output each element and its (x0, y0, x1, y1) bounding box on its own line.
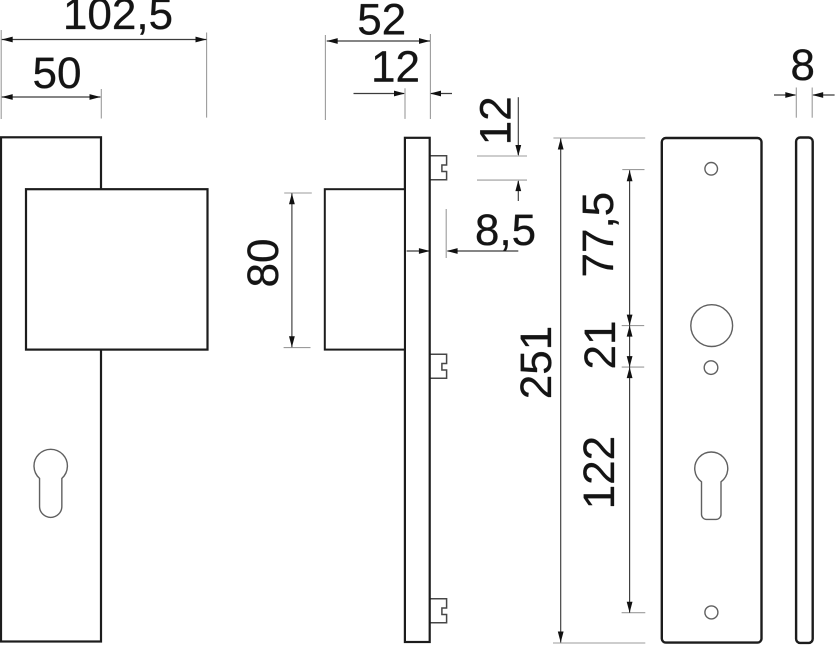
plate side view bar (405, 138, 430, 642)
dimension 50 (2, 57, 102, 118)
dimension 12 (vertical, clip height) (477, 97, 527, 201)
extension lines (0, 30, 2, 119)
dimension chain 77,5 / 21 / 122 (583, 170, 646, 613)
dimension 80 (vertical, knob height) (247, 193, 312, 348)
small hole below hub (704, 361, 718, 375)
clip bottom (430, 599, 447, 623)
clip top (430, 156, 447, 180)
top screw hole (705, 163, 718, 176)
knob block side view (325, 189, 405, 349)
dimension 52 (325, 4, 430, 120)
dimension 251 (520, 138, 645, 643)
backplate side view strip (796, 138, 813, 643)
keyhole euro profile (backplate) (695, 452, 728, 519)
plate front view (1, 137, 101, 641)
dimension line (2, 39, 207, 41)
dimension 12 (horizontal, plate thickness) (354, 51, 453, 119)
122 arrows (627, 367, 633, 378)
handle hub hole (691, 305, 733, 347)
keyhole euro profile (left view) (34, 449, 67, 517)
77,5 arrows (627, 170, 633, 181)
backplate front view (662, 138, 762, 643)
clip middle (430, 354, 447, 378)
dimension 102,5 (1, 0, 206, 119)
dimension 8,5 (clip protrusion) (407, 209, 535, 258)
21 arrows (627, 326, 633, 337)
square knob front view (26, 189, 208, 349)
dimension 8 (774, 49, 835, 117)
bottom screw hole (705, 606, 718, 619)
